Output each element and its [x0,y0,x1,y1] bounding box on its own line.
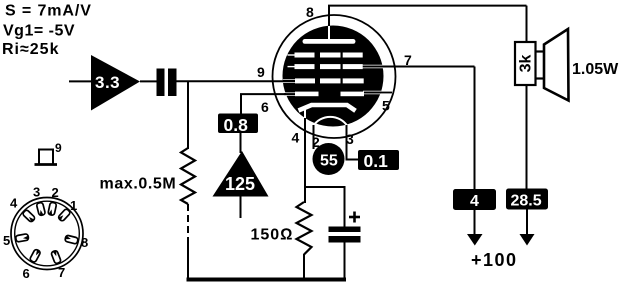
svg-text:8: 8 [306,4,314,20]
wire 0.8 box to voltage arrow [240,133,242,153]
wire 150ohm to bus [303,254,305,279]
svg-text:125: 125 [225,174,255,194]
grid internal lead slivers (white) [283,55,383,94]
cathode chevron [299,105,356,111]
svg-text:3: 3 [33,185,40,200]
cathode resistor 150ohm [251,202,312,255]
top cap symbol pin 9 [35,141,63,165]
grid row 4 (suppressor, pins 6 and 5) [295,92,364,97]
wire 3k down to 28.5 box [526,85,528,190]
svg-text:Ri≈25k: Ri≈25k [2,41,59,58]
socket contact pin 3 [36,202,45,216]
tube inner black disc [283,26,384,127]
wire top rail down to 3k [526,6,528,43]
svg-text:5: 5 [382,98,390,114]
anode bar [303,39,356,44]
wire corner down to box 4 [474,67,476,191]
svg-text:S = 7mA/V: S = 7mA/V [5,3,92,20]
cathode lead to pin 4 (white inside disc) [304,108,306,119]
svg-text:5: 5 [3,233,10,248]
input signal arrow 3.3 [91,55,140,111]
svg-text:4: 4 [10,196,18,211]
wire grid resistor to ground bus (part dashed) [187,204,189,243]
ground bus bar [187,278,347,282]
socket contact pin 2 [48,202,57,216]
socket contact pin 8 [65,235,79,244]
svg-text:28.5: 28.5 [511,193,542,210]
grid lead overlay wires (black) [283,67,383,95]
wire pin 6 to 0.8 box [241,94,286,114]
svg-text:9: 9 [257,64,265,80]
tube V1 envelope outer circle [273,15,396,138]
socket contact pin 4 [22,209,35,222]
svg-text:1.05W: 1.05W [572,61,619,78]
wire electrolytic to bus [344,242,346,280]
wire anode to top rail [328,6,330,27]
electrolytic capacitor plus sign [349,212,360,223]
wire cathode pin 4 down [304,118,306,203]
socket contact pin 6 [29,249,41,263]
svg-text:9: 9 [55,141,62,155]
wire capacitor to grid pin 9 [177,80,286,82]
wire heater pin 3 leg [347,125,359,160]
socket contact pin 7 [51,250,61,264]
svg-text:55: 55 [320,153,338,170]
svg-text:150Ω: 150Ω [251,227,294,244]
wire cathode node to electrolytic [305,187,345,227]
anode lead inside bulb (white) [328,26,330,40]
grid row 3 (control grid, to pin 9) [295,78,364,83]
coupling capacitor [157,69,177,97]
current box 0.1 [358,150,399,171]
arrow below 4 [467,210,483,246]
electrolytic capacitor plates [329,227,361,243]
wire heater pin 2 leg [313,125,315,149]
tube socket outer circle [11,198,83,270]
svg-text:Vg1= -5V: Vg1= -5V [3,23,75,40]
voltage arrow 125 [213,151,269,197]
svg-text:1: 1 [70,198,77,213]
wire junction down to grid resistor [187,82,189,150]
wire pin 7 to corner [380,66,475,68]
svg-text:7: 7 [58,265,65,280]
grid row 2 (screen, to pin 7) [295,64,363,69]
current box 4 [453,189,496,210]
voltage arrow tail [240,197,242,219]
svg-text:2: 2 [52,185,59,200]
loudspeaker [536,29,569,101]
wire input stub [69,80,92,82]
socket contact pin 1 [58,208,71,222]
current box 0.8 [218,114,258,136]
svg-text:0.8: 0.8 [224,115,249,135]
svg-text:4: 4 [292,130,300,146]
svg-text:6: 6 [261,99,269,115]
svg-text:4: 4 [470,193,479,210]
resistor max.0.5M [100,148,196,204]
heater dome arc [314,117,348,126]
svg-text:6: 6 [23,266,30,281]
socket contact pin 5 [15,234,28,242]
svg-text:+100: +100 [471,250,518,270]
grid row 1 [295,53,363,58]
wire arrow to capacitor [140,80,157,82]
heater current circle 55 [313,143,345,175]
svg-text:3k: 3k [518,55,535,73]
current box 28.5 [506,189,548,210]
svg-text:8: 8 [81,235,88,250]
svg-text:max.0.5M: max.0.5M [100,176,177,193]
tube socket inner circle [15,201,80,266]
top rail wire [328,5,527,7]
wire pin 5 stub [378,92,392,94]
arrow below 28.5 [520,210,535,246]
anode load resistor 3k [515,42,536,85]
svg-text:0.1: 0.1 [364,151,389,171]
svg-text:3.3: 3.3 [95,73,120,92]
